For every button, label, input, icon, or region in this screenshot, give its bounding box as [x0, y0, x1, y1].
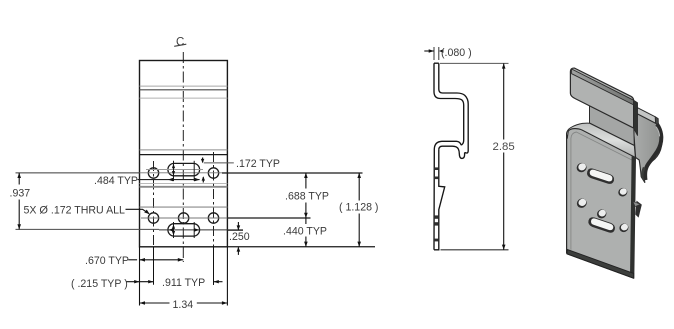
- svg-text:.688 TYP: .688 TYP: [285, 191, 329, 203]
- svg-text:.937: .937: [10, 187, 31, 199]
- bend line light y=86.1: [140, 85, 228, 87]
- svg-text:2.85: 2.85: [493, 141, 515, 153]
- hole column centerline right: [213, 152, 215, 285]
- bottom edge extension to right y=246.8: [227, 246, 375, 248]
- .250 outside arrows at x=238.4: [228, 229, 243, 231]
- .937 dimension vertical at x=19.2: [18, 173, 20, 185]
- svg-text:.440 TYP: .440 TYP: [283, 225, 327, 237]
- (.080) dimension: [424, 50, 433, 52]
- plate inner edge line (sheet edge strip): [571, 132, 635, 250]
- bend line gray y=183.4: [140, 182, 228, 184]
- .484 dim line inside top slot y=179.3: [138, 179, 200, 181]
- curl cusp dark fill: [641, 167, 646, 183]
- top slot horizontal centerline y=169.5: [146, 169, 203, 171]
- slot arc tick marks: [173, 161, 175, 181]
- plate right edge dark band: [630, 156, 635, 278]
- holes: dark rim + offset white interior: [575, 161, 630, 233]
- inner line: flange right, bend, run1 top, wall outer, to cap: [439, 63, 468, 153]
- svg-text:C: C: [176, 37, 184, 49]
- main plate: outer silhouette: [567, 128, 636, 278]
- middle row holes: [148, 213, 158, 223]
- svg-text:( .215 TYP ): ( .215 TYP ): [71, 278, 128, 290]
- svg-text:.670 TYP: .670 TYP: [85, 255, 129, 267]
- flange right end cap: [634, 100, 638, 135]
- S-curl wall right side: [634, 112, 662, 182]
- svg-text:.911 TYP: .911 TYP: [162, 277, 205, 289]
- bottom slot horizontal arrows: [168, 228, 199, 231]
- run2 top line into V and strip-left bend: [434, 141, 461, 250]
- run2 bottom line, loop, cap: [439, 146, 467, 158]
- strip hole bands (edge view): [434, 167, 439, 241]
- 5X leader: [126, 209, 149, 213]
- svg-text:5X Ø .172 THRU ALL: 5X Ø .172 THRU ALL: [24, 205, 126, 217]
- thick gray bend band y=186.8: [140, 186, 228, 188]
- svg-text:( 1.128 ): ( 1.128 ): [339, 202, 378, 214]
- bend line gray y=149.9: [140, 149, 228, 151]
- bend line dark y=89.8: [140, 89, 228, 91]
- outer-left line: flange left, bend, run1 bottom, wall inner, V: [434, 63, 464, 145]
- svg-text:1.34: 1.34: [173, 299, 194, 311]
- bottom edge dark band: [567, 249, 634, 278]
- flange face: [570, 68, 633, 128]
- flange top edge strip: [572, 69, 634, 105]
- 1.34 dim: [140, 302, 170, 304]
- .172 TYP leader + arrows: [204, 162, 234, 164]
- slot internal arrows (top slot .172 vertical): [172, 164, 175, 176]
- right side dims: .688 and .440 at x=305.9 ; (1.128) at x=359.2: [305, 173, 307, 189]
- horizontal centerline top hole row / .937 ext / (1.128) ext : y=172.8: [16, 172, 140, 174]
- top-run light band behind flange right: [634, 106, 656, 124]
- svg-text:(.080 ): (.080 ): [441, 47, 472, 59]
- hole column centerline left: [153, 161, 155, 285]
- .215/.911 dim line: [126, 281, 154, 283]
- svg-text:.250: .250: [229, 231, 250, 243]
- web between flange bottom and crest top: [590, 106, 635, 146]
- top-run right end cap: [655, 117, 658, 127]
- bend line light y=98.1: [140, 97, 228, 99]
- strip right edge with notch tab: [434, 150, 445, 250]
- S-curl thickness lines: [645, 124, 661, 180]
- svg-text:.172 TYP: .172 TYP: [236, 158, 280, 170]
- top slot: [168, 163, 200, 175]
- outline rectangle: [140, 61, 228, 247]
- vertical centerline (dash-dot): [182, 52, 184, 262]
- below-plate extension lines: [139, 247, 141, 306]
- bottom slot: [168, 224, 200, 236]
- svg-text:.484 TYP: .484 TYP: [94, 175, 138, 187]
- lower-right tab: [635, 201, 642, 218]
- 2.85 dimension: [440, 62, 509, 64]
- slots: dark obround + offset white core: [587, 168, 615, 232]
- bend line dark y=154.6: [140, 154, 228, 156]
- crest bright band: [567, 123, 636, 157]
- bottom slot centerline y=229.9: [159, 229, 243, 231]
- top row holes: [148, 168, 158, 178]
- left extension of bottom slot centerline y=229.4: [16, 228, 160, 230]
- side profile: top cap: [434, 62, 439, 64]
- bend line gray y=207.1: [140, 206, 228, 208]
- middle hole row centerline y=218: [141, 217, 227, 219]
- .670 dim: [128, 259, 137, 261]
